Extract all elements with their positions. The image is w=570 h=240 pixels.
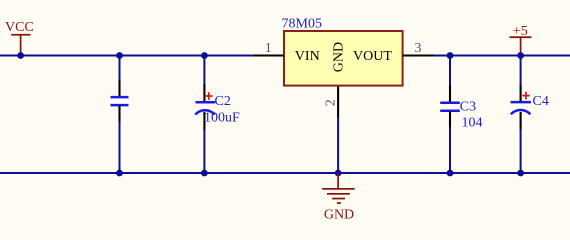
wire C4 bottom bbox=[520, 129, 522, 173]
wire C2 bottom bbox=[203, 129, 205, 173]
pin 3 bbox=[403, 41, 435, 56]
pin 1 bbox=[252, 41, 284, 56]
wire C3 bottom bbox=[449, 127, 451, 173]
ground GND bbox=[322, 173, 354, 222]
node C1 bottom junction bbox=[116, 170, 123, 177]
wire C1 bottom bbox=[119, 122, 121, 174]
capacitor C2 bbox=[195, 84, 240, 130]
wire C4 top bbox=[520, 56, 522, 87]
pin 2 bbox=[323, 87, 338, 118]
capacitor C4 bbox=[511, 85, 549, 130]
wire C2 top bbox=[203, 56, 205, 86]
power symbol VCC bbox=[5, 20, 34, 54]
node C3 bottom junction bbox=[447, 170, 454, 177]
wire C3 top bbox=[449, 56, 451, 87]
node C2 top junction bbox=[201, 52, 208, 59]
wire top rail left segment bbox=[0, 55, 252, 57]
svg-text:C2: C2 bbox=[215, 94, 231, 109]
op-amp U1 regulator 78M05 bbox=[282, 17, 403, 86]
svg-text:VOUT: VOUT bbox=[353, 49, 392, 64]
svg-text:GND: GND bbox=[332, 42, 347, 72]
svg-text:2: 2 bbox=[323, 99, 338, 106]
capacitor C1 bbox=[111, 80, 129, 123]
node C1 top junction bbox=[116, 52, 123, 59]
svg-text:1: 1 bbox=[265, 41, 272, 56]
capacitor C3 bbox=[440, 86, 482, 131]
node +5 junction bbox=[517, 52, 524, 59]
svg-text:VCC: VCC bbox=[5, 20, 34, 35]
svg-text:100uF: 100uF bbox=[204, 111, 240, 126]
node C2 bottom junction bbox=[201, 170, 208, 177]
svg-text:3: 3 bbox=[415, 41, 422, 56]
node VCC junction bbox=[17, 52, 24, 59]
node C3 top junction bbox=[447, 52, 454, 59]
svg-text:GND: GND bbox=[324, 207, 354, 222]
wire top rail right segment bbox=[435, 55, 570, 57]
node GND junction bbox=[335, 170, 342, 177]
node C4 bottom junction bbox=[517, 170, 524, 177]
svg-text:C4: C4 bbox=[533, 94, 549, 109]
wire bottom rail bbox=[0, 172, 570, 174]
svg-text:104: 104 bbox=[462, 115, 483, 130]
wire C1 top bbox=[119, 56, 121, 81]
svg-text:78M05: 78M05 bbox=[282, 17, 322, 32]
power symbol +5 bbox=[510, 24, 532, 55]
wire pin2 to bottom rail bbox=[337, 117, 339, 173]
svg-text:VIN: VIN bbox=[295, 49, 320, 64]
svg-text:C3: C3 bbox=[460, 99, 476, 114]
